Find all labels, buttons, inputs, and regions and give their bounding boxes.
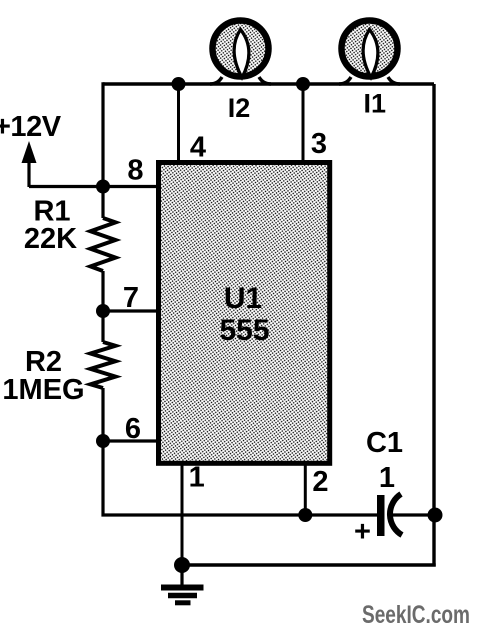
wire: pin 4 lead x=178.5 bbox=[177, 84, 180, 163]
wire: ground bus y=565 bbox=[182, 563, 436, 566]
svg-text:U1: U1 bbox=[224, 282, 262, 315]
node: pin1 / ground bus junction bbox=[174, 557, 190, 573]
wire: pin 7 stub y=311 bbox=[103, 309, 158, 312]
wire: pin 6 stub y=441 bbox=[103, 439, 158, 442]
wire: bottom bus y=515 left part bbox=[103, 388, 378, 515]
svg-text:555: 555 bbox=[219, 314, 269, 347]
lamp I1 bbox=[339, 21, 400, 85]
node: +12V / pin8 / R1 junction bbox=[96, 180, 110, 194]
svg-text:2: 2 bbox=[312, 466, 328, 498]
lamp I2 bbox=[210, 21, 271, 85]
svg-text:C1: C1 bbox=[366, 427, 403, 459]
node: cap / right rail junction bbox=[428, 508, 443, 523]
svg-text:+: + bbox=[354, 516, 371, 548]
svg-text:I2: I2 bbox=[228, 93, 251, 123]
wire: pin 2 lead x=305 bbox=[304, 463, 307, 515]
resistor R1 22K zigzag bbox=[91, 218, 116, 271]
svg-text:3: 3 bbox=[311, 128, 327, 160]
node: R1 / R2 / pin7 junction bbox=[96, 304, 110, 318]
wire: pin 1 lead x=182 bbox=[181, 463, 184, 565]
resistor R2 1MEG zigzag bbox=[91, 342, 116, 388]
node: top rail / pin4 junction bbox=[172, 77, 186, 91]
node: top rail / pin3 junction bbox=[296, 77, 310, 91]
svg-text:SeekIC.com: SeekIC.com bbox=[362, 601, 470, 629]
svg-text:6: 6 bbox=[125, 413, 141, 445]
svg-text:1: 1 bbox=[379, 462, 395, 494]
wire: left vertical between R1 and R2 bbox=[101, 271, 104, 342]
ground bbox=[161, 565, 204, 603]
wire: bottom bus y=515 right part (cap to right rail) bbox=[391, 513, 434, 516]
wire: pin 3 lead x=303 bbox=[302, 84, 305, 163]
svg-text:+12V: +12V bbox=[0, 111, 62, 143]
capacitor C1 bbox=[377, 494, 402, 536]
wire: left vertical rail upper segment x=103 bbox=[101, 82, 104, 218]
svg-text:22K: 22K bbox=[24, 223, 77, 255]
op-amp U1 555 timer body bbox=[159, 163, 330, 464]
power symbol +12V arrow bbox=[22, 141, 37, 187]
svg-text:1MEG: 1MEG bbox=[2, 374, 84, 406]
wire: right vertical rail x=434 bbox=[432, 84, 435, 567]
node: pin2 / cap bus junction bbox=[298, 508, 312, 522]
node: R2 / pin6 junction bbox=[96, 434, 110, 448]
svg-text:1: 1 bbox=[189, 462, 205, 494]
wire: top horizontal rail y=84 bbox=[103, 82, 434, 85]
svg-text:7: 7 bbox=[123, 282, 139, 314]
svg-text:I1: I1 bbox=[364, 89, 387, 119]
svg-text:4: 4 bbox=[190, 132, 206, 164]
wire: +12V feed / pin 8 stub y=186.5 bbox=[29, 185, 158, 188]
svg-text:8: 8 bbox=[127, 155, 143, 187]
